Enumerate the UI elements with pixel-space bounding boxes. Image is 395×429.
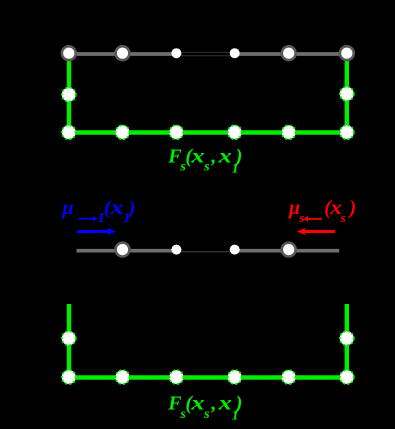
node green dashed bottom chain b3 xyxy=(169,370,183,384)
node x6 top chain (gray ring) xyxy=(340,46,354,60)
node green dashed bottom chain b5 xyxy=(282,370,296,384)
wire green right vertical of bottom fragment xyxy=(345,304,349,378)
node green dashed right mid of bottom fragment xyxy=(340,331,354,345)
node green dashed bottom chain b2 xyxy=(116,370,130,384)
arrow red message direction (left) xyxy=(297,228,335,235)
node x2 top chain (gray ring) xyxy=(116,46,130,60)
node x1 top chain (gray ring) xyxy=(62,46,76,60)
wire top chain ellipsis double line upper xyxy=(180,51,231,53)
arrow red subscript left-arrow of mu label xyxy=(304,216,322,222)
arrow blue subscript right-arrow of mu label xyxy=(78,216,98,222)
wire green left vertical of bottom fragment xyxy=(67,304,71,378)
wire top chain gray right segment xyxy=(235,52,347,56)
node green dashed bottom chain 2 xyxy=(116,125,130,139)
node middle chain white dot 4 xyxy=(230,245,240,255)
wire green right vertical of top fragment xyxy=(345,53,349,132)
node top chain white dot 3 xyxy=(171,48,181,58)
wire middle chain gray left dangling segment xyxy=(77,249,177,253)
wire top chain gray left segment xyxy=(69,52,177,56)
node green dashed left mid of bottom fragment xyxy=(62,331,76,345)
arrow blue message direction (right) xyxy=(77,228,116,235)
node green dashed bottom chain 5 xyxy=(282,125,296,139)
node green dashed bottom chain 4 xyxy=(228,125,242,139)
wire middle chain ellipsis thin line xyxy=(180,251,231,253)
node green dashed bottom chain 1 xyxy=(62,125,76,139)
wire green bottom chain of bottom fragment xyxy=(67,375,349,379)
node green dashed right mid of top fragment xyxy=(340,87,354,101)
node green dashed bottom chain 6 xyxy=(340,125,354,139)
node middle chain gray ring right xyxy=(282,243,296,257)
node green dashed bottom chain b1 xyxy=(62,370,76,384)
node top chain white dot 4 xyxy=(230,48,240,58)
wire middle chain gray right dangling segment xyxy=(235,249,340,253)
node x5 top chain (gray ring) xyxy=(282,46,296,60)
wire top chain ellipsis double line lower xyxy=(180,55,231,57)
node middle chain white dot 3 xyxy=(171,245,181,255)
node middle chain gray ring left xyxy=(116,243,130,257)
wire green left vertical of top fragment xyxy=(67,53,71,132)
node green dashed bottom chain 3 xyxy=(169,125,183,139)
node green dashed bottom chain b6 xyxy=(340,370,354,384)
node green dashed bottom chain b4 xyxy=(228,370,242,384)
wire green bottom chain of top fragment xyxy=(67,130,349,134)
node green dashed left mid of top fragment xyxy=(62,88,76,102)
